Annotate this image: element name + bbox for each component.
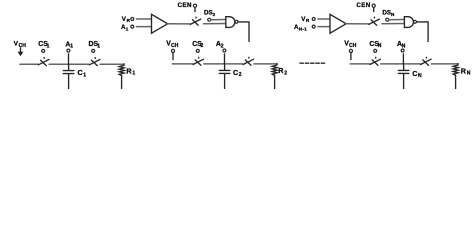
- resistor R1: [119, 65, 124, 89]
- svg-text:2: 2: [213, 12, 216, 17]
- wire channel 2 mid segment: [204, 63, 243, 65]
- label AN-1 input (block N): [294, 24, 307, 32]
- svg-text:1: 1: [47, 43, 50, 49]
- label R1: [126, 66, 135, 76]
- terminal circle DSN: [386, 18, 389, 21]
- terminal circle VR input: [131, 18, 134, 21]
- terminal circle CS1: [42, 49, 45, 52]
- op-amp U2 (comparator, block N): [330, 14, 346, 33]
- label A1 input (block 2): [121, 24, 129, 31]
- switch CSN: [370, 57, 381, 65]
- label CSN: [369, 41, 381, 49]
- terminal circle CEN (block N): [372, 4, 375, 7]
- wire channel 1 main rail (left segment): [20, 63, 38, 65]
- wire channel N main rail (left segment): [350, 63, 370, 65]
- svg-text:CH: CH: [19, 43, 27, 49]
- switch CS1: [38, 58, 49, 66]
- switch DS1: [89, 58, 100, 66]
- resistor RN: [453, 65, 458, 89]
- switch CEN (block 2): [190, 17, 201, 25]
- svg-text:N: N: [402, 43, 406, 49]
- svg-text:1: 1: [70, 44, 73, 50]
- input arrow VCH channel 1: [18, 48, 24, 56]
- node A2 tap: [224, 54, 226, 64]
- wire CEN switch to gate lower input (block N): [382, 23, 405, 25]
- label DS2 (block 2): [204, 10, 216, 17]
- wire DS2 to gate upper input: [211, 19, 226, 21]
- svg-text:R: R: [306, 18, 310, 23]
- svg-text:1: 1: [132, 71, 135, 77]
- svg-text:2: 2: [284, 70, 287, 76]
- svg-text:CH: CH: [171, 43, 179, 49]
- label CS2: [192, 41, 203, 49]
- terminal circle A1: [67, 49, 70, 52]
- svg-text:C: C: [233, 68, 238, 77]
- svg-text:CEN: CEN: [178, 2, 192, 9]
- label C2: [233, 68, 242, 78]
- label R2: [278, 66, 287, 76]
- terminal circle CSN: [374, 49, 377, 52]
- wire VR to op-amp: [137, 18, 152, 20]
- wire VR to op-amp (block N): [318, 18, 330, 20]
- label CS1: [38, 41, 49, 49]
- switch DS2 (channel 2): [243, 57, 254, 65]
- wire CEN switch to gate lower input: [203, 23, 225, 25]
- terminal circle CEN: [193, 4, 196, 7]
- terminal circle VCH channel N: [349, 49, 352, 52]
- label VR (block N): [301, 16, 310, 23]
- svg-text:C: C: [412, 69, 417, 78]
- svg-text:1: 1: [126, 26, 129, 31]
- svg-text:DS: DS: [382, 10, 391, 17]
- label CN: [412, 69, 422, 79]
- label AN: [397, 41, 406, 49]
- wire VCH tick channel N: [350, 53, 352, 60]
- wire channel N mid segment: [381, 63, 421, 65]
- switch CEN (block N): [369, 17, 380, 25]
- label A1: [65, 41, 73, 49]
- wire channel N right segment to RN: [431, 63, 457, 65]
- svg-text:N: N: [418, 73, 422, 79]
- wire channel 1 mid segment: [49, 63, 89, 65]
- label DSN (block N): [382, 10, 395, 17]
- svg-text:2: 2: [221, 43, 224, 49]
- wire DSN to gate upper input: [389, 19, 405, 21]
- label RN: [461, 67, 471, 77]
- terminal circle CS2: [196, 49, 199, 52]
- svg-text:1: 1: [97, 43, 100, 49]
- wire CEN control tick (block N): [373, 8, 375, 12]
- label DS1: [89, 41, 101, 49]
- svg-text:R: R: [127, 18, 131, 23]
- resistor R2: [272, 65, 277, 89]
- capacitor CN: [398, 64, 409, 89]
- node A1 tap: [68, 54, 70, 64]
- wire channel 1 right segment to R1: [100, 63, 123, 65]
- svg-text:2: 2: [239, 72, 242, 78]
- wire AN-1 to op-amp: [318, 26, 330, 28]
- terminal circle DS1: [92, 49, 95, 52]
- wire channel 2 main rail (left segment): [172, 63, 193, 65]
- switch DSN (channel N): [421, 57, 432, 65]
- capacitor C1: [63, 64, 74, 89]
- label A2: [216, 41, 224, 49]
- svg-text:CH: CH: [349, 43, 357, 49]
- AND gate GN (with output bubble): [404, 17, 416, 28]
- svg-text:N-1: N-1: [299, 26, 307, 32]
- terminal circle AN-1 input: [312, 25, 315, 28]
- terminal circle VCH channel 2: [171, 49, 174, 52]
- svg-text:2: 2: [201, 43, 204, 49]
- wire A1 to op-amp: [137, 26, 152, 28]
- svg-text:N: N: [391, 12, 395, 17]
- node AN tap: [402, 54, 404, 64]
- label C1: [78, 68, 87, 78]
- wire op-amp output to CEN switch (block N): [346, 23, 369, 25]
- label VR (block 2): [122, 16, 131, 23]
- wire CEN control tick: [194, 8, 196, 12]
- AND gate G2 (with output bubble): [226, 17, 238, 28]
- wire channel 2 right segment to R2: [254, 63, 277, 65]
- terminal circle AN: [401, 49, 404, 52]
- switch CS2: [193, 57, 204, 65]
- svg-text:1: 1: [83, 72, 86, 78]
- wire op-amp output to CEN switch: [168, 23, 191, 25]
- label VCH (channel 1): [14, 41, 27, 50]
- wire gate GN output down to switch DSN: [417, 22, 428, 42]
- terminal circle A1 input: [131, 25, 134, 28]
- wire continuation dashes: [300, 62, 327, 64]
- terminal circle VR input (block N): [312, 18, 315, 21]
- svg-text:C: C: [78, 68, 83, 77]
- terminal circle DS2: [208, 18, 211, 21]
- svg-text:CEN: CEN: [356, 2, 370, 9]
- wire gate G2 output down to switch DS2: [238, 22, 249, 42]
- svg-text:N: N: [378, 43, 382, 49]
- capacitor C2: [219, 64, 230, 89]
- svg-text:N: N: [467, 71, 471, 77]
- svg-text:DS: DS: [204, 10, 213, 17]
- wire VCH tick channel 2: [172, 53, 174, 60]
- label VCH (channel 2): [166, 41, 178, 50]
- label VCH (channel N): [344, 41, 356, 50]
- terminal circle A2: [223, 49, 226, 52]
- op-amp U1 (comparator, block 2): [152, 14, 168, 33]
